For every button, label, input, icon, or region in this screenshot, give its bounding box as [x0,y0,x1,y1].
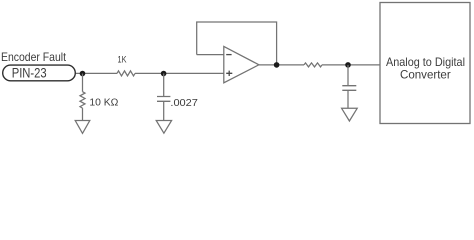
node junction C (output) [274,62,280,68]
op-amp U1 [224,46,259,82]
svg-text:PIN-23: PIN-23 [12,65,47,80]
wire junction D down to C2 [347,65,349,86]
pin + [226,71,232,76]
node junction D [345,62,351,68]
capacitor C1 .0027 [157,97,170,102]
ground (left) [75,121,90,134]
wire C2 to ground [347,90,349,108]
wire op-amp output to ADC [259,64,380,66]
svg-text:Converter: Converter [400,67,451,81]
wire R2 to ground [82,108,84,120]
svg-text:1K: 1K [118,55,128,66]
resistor R2 10 KΩ (vertical) [80,92,85,108]
capacitor C2 [342,86,356,91]
resistor R3 [304,63,322,67]
node junction A [80,71,86,77]
svg-text:10 KΩ: 10 KΩ [89,97,119,108]
ground (middle) [156,121,171,134]
resistor R1 1K [117,71,135,76]
wire PIN-23 to op-amp + input [76,72,224,74]
svg-text:Encoder Fault: Encoder Fault [1,50,67,64]
block Analog to Digital Converter [380,3,470,124]
terminal PIN-23 [3,65,76,81]
svg-text:.0027: .0027 [170,98,198,109]
wire C1 to ground [163,101,165,120]
wire feedback loop [197,22,277,65]
wire feedback to - input [197,54,224,56]
wire junction B down to C1 [163,74,165,97]
ground (right) [342,108,358,121]
wire junction A down to R2 [82,74,84,92]
pin - [226,54,231,56]
node junction B [161,71,167,77]
